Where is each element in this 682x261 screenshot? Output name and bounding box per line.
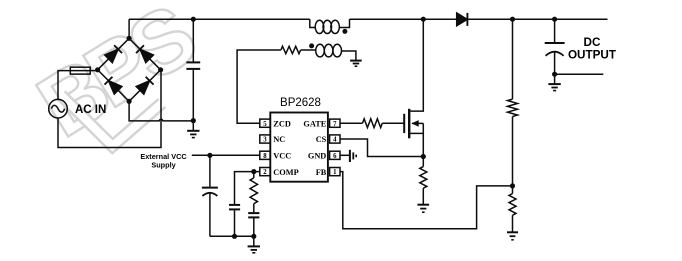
diode D5 freewheel — [457, 13, 468, 26]
resistor R4 lower divider — [509, 186, 516, 232]
bridge diode D4 — [136, 77, 154, 95]
capacitor C3 VCC — [202, 155, 218, 236]
node L1 phase dot — [342, 29, 347, 34]
wire bridge bottom to cap node with hop — [129, 101, 193, 121]
transistor Q1 — [404, 19, 423, 156]
svg-text:FB: FB — [316, 168, 327, 177]
ground GND pin sideways — [350, 150, 356, 162]
fuse F1 — [70, 67, 90, 74]
label DC OUTPUT — [568, 36, 617, 62]
inductor L2 auxiliary winding — [316, 44, 356, 60]
wire bottom rail of compensation — [210, 235, 254, 237]
svg-text:1: 1 — [333, 169, 337, 176]
node aux phase dot — [309, 43, 314, 48]
svg-text:3: 3 — [263, 137, 267, 144]
wire R2 to gate — [382, 122, 404, 124]
svg-text:GATE: GATE — [303, 119, 326, 128]
svg-text:ZCD: ZCD — [273, 119, 291, 128]
node bridge bottom — [127, 99, 132, 104]
svg-text:AC IN: AC IN — [75, 104, 106, 116]
svg-text:NC: NC — [273, 135, 285, 144]
capacitor C4 — [229, 205, 240, 236]
wire AC hot lead — [58, 71, 70, 100]
bridge diode D1 — [105, 45, 123, 63]
wire external VCC to pin 8 — [192, 154, 260, 156]
node bridge left — [95, 67, 100, 72]
op-amp U1 BP2628 body — [270, 113, 328, 182]
node output cap top — [552, 17, 557, 22]
wire GATE to R2 — [340, 122, 363, 124]
node C1 bottom — [191, 118, 196, 123]
resistor R2 — [363, 119, 383, 128]
wire bridge top to rail — [128, 19, 130, 38]
svg-text:6: 6 — [333, 153, 337, 160]
wire top rail right — [467, 18, 607, 20]
ground aux winding — [350, 61, 362, 67]
node source CS junction — [421, 154, 426, 159]
pin 1 box — [330, 168, 340, 177]
wire top rail middle — [350, 18, 457, 20]
node output cap bottom — [552, 72, 557, 77]
wire CS trace — [340, 139, 423, 157]
wire COMP trace — [235, 172, 260, 204]
wire AC neutral return — [58, 70, 161, 148]
wire top rail left — [129, 18, 310, 20]
pin 3 box — [260, 135, 270, 144]
svg-text:COMP: COMP — [273, 168, 298, 177]
node divider top — [510, 17, 515, 22]
svg-text:4: 4 — [333, 137, 337, 144]
wire fuse to bridge — [90, 70, 97, 72]
ground FB divider — [507, 232, 518, 240]
wire FB trace — [340, 172, 513, 229]
wire R1 to aux winding — [301, 49, 316, 51]
ground bridge — [187, 121, 199, 138]
svg-text:CS: CS — [316, 135, 327, 144]
pin 7 box — [330, 119, 340, 128]
wire ZCD trace — [237, 50, 281, 123]
node rail ground — [251, 234, 256, 239]
svg-text:BP2628: BP2628 — [280, 97, 321, 109]
resistor R5 sense — [420, 157, 427, 205]
resistor R1 — [281, 46, 301, 53]
ground sense resistor — [418, 205, 430, 213]
svg-text:5: 5 — [263, 121, 267, 128]
bridge diode D2 — [136, 45, 154, 63]
node bridge top — [127, 36, 132, 41]
wire GND pin stub — [340, 154, 349, 156]
pin 8 box — [260, 151, 270, 160]
node drain rail junction — [421, 17, 426, 22]
wire output negative rail — [555, 73, 604, 75]
svg-text:GND: GND — [308, 152, 326, 161]
svg-text:8: 8 — [263, 153, 267, 160]
bridge diode D3 — [105, 77, 123, 95]
capacitor C5 — [248, 213, 259, 236]
svg-text:7: 7 — [333, 121, 337, 128]
ac source V1 — [49, 99, 68, 118]
node rail cap junction — [191, 17, 196, 22]
svg-text:Supply: Supply — [151, 160, 176, 169]
svg-text:DC: DC — [584, 36, 601, 49]
inductor L1 — [310, 19, 350, 33]
label External VCC Supply — [140, 152, 187, 170]
pin 2 box — [260, 168, 270, 177]
node FB divider junction — [510, 183, 515, 188]
svg-text:OUTPUT: OUTPUT — [568, 49, 617, 62]
bridge frame — [98, 38, 161, 101]
ground compensation — [248, 236, 260, 253]
node COMP branch — [251, 169, 256, 174]
node bridge right — [158, 67, 163, 72]
svg-text:2: 2 — [263, 169, 267, 176]
pin 5 box — [260, 119, 270, 128]
pin 4 box — [330, 135, 340, 144]
pin 6 box — [330, 151, 340, 160]
svg-text:VCC: VCC — [273, 152, 291, 161]
ground output — [548, 74, 560, 90]
capacitor C2 output — [545, 19, 565, 74]
node VCC supply junction — [207, 153, 212, 158]
capacitor C1 — [186, 19, 200, 120]
resistor R3 upper divider — [508, 19, 518, 186]
resistor R6 — [250, 172, 257, 213]
node rail C4 — [232, 234, 237, 239]
